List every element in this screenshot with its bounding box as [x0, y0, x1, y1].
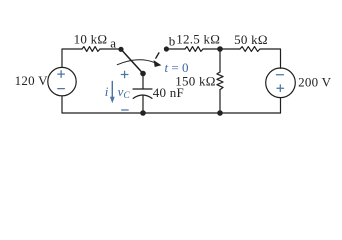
- svg-text:vC: vC: [118, 84, 131, 101]
- voltage source V2 200 V circle: [266, 68, 296, 98]
- switch pivot node: [140, 71, 146, 77]
- V1 minus mark: [58, 88, 65, 90]
- svg-text:a: a: [110, 36, 116, 51]
- bottom junction node (capacitor): [140, 110, 146, 116]
- resistor R2 12.5 kΩ: [185, 47, 203, 52]
- switch blade (a to pivot): [121, 49, 143, 73]
- wire: 10k to node a: [100, 48, 121, 50]
- wire: junction to 50k: [220, 48, 240, 50]
- resistor R3 50 kΩ: [240, 47, 260, 52]
- wire: 150k to bottom rail: [219, 90, 221, 113]
- svg-text:b: b: [169, 33, 176, 48]
- wire: 200V source bottom to rail: [280, 98, 282, 113]
- wire: bottom rail: [62, 96, 281, 113]
- bottom junction node (150k): [217, 110, 223, 116]
- resistor R1 10 kΩ: [82, 47, 100, 52]
- wire: 12.5k to top junction: [203, 48, 220, 50]
- voltage source V1 120 V circle: [48, 67, 76, 95]
- node b: [164, 46, 169, 51]
- switch motion arc: [117, 60, 154, 65]
- wire: switch pivot down to capacitor: [142, 74, 144, 90]
- svg-text:i: i: [105, 84, 109, 99]
- svg-text:t = 0: t = 0: [165, 60, 189, 75]
- svg-text:40 nF: 40 nF: [153, 85, 184, 100]
- V2 minus mark: [276, 74, 283, 76]
- capacitor C1 top plate: [133, 88, 152, 90]
- capacitor plus polarity: [121, 71, 128, 78]
- wire: left branch (source top to 10k resistor): [62, 49, 82, 67]
- wire: node b to 12.5k: [166, 48, 185, 50]
- svg-text:120 V: 120 V: [15, 73, 49, 88]
- top junction node: [217, 46, 223, 52]
- node a: [118, 47, 123, 52]
- wire: capacitor to bottom rail: [142, 96, 144, 113]
- wire: 150k branch top: [219, 49, 221, 72]
- switch dashed throw toward b: [156, 53, 159, 58]
- svg-text:12.5 kΩ: 12.5 kΩ: [176, 31, 220, 46]
- capacitor minus polarity: [122, 109, 129, 111]
- capacitor C1 curved bottom plate: [133, 95, 152, 98]
- current arrow i head: [110, 97, 115, 103]
- switch motion arrowhead: [154, 60, 162, 67]
- wire: 50k to 200V source: [260, 49, 281, 68]
- svg-text:200 V: 200 V: [298, 75, 332, 90]
- svg-text:10 kΩ: 10 kΩ: [74, 32, 108, 47]
- current arrow i shaft: [111, 82, 113, 98]
- resistor R4 150 kΩ: [217, 72, 223, 90]
- svg-text:50 kΩ: 50 kΩ: [234, 32, 268, 47]
- V2 plus mark: [277, 85, 284, 92]
- V1 plus mark: [58, 71, 65, 78]
